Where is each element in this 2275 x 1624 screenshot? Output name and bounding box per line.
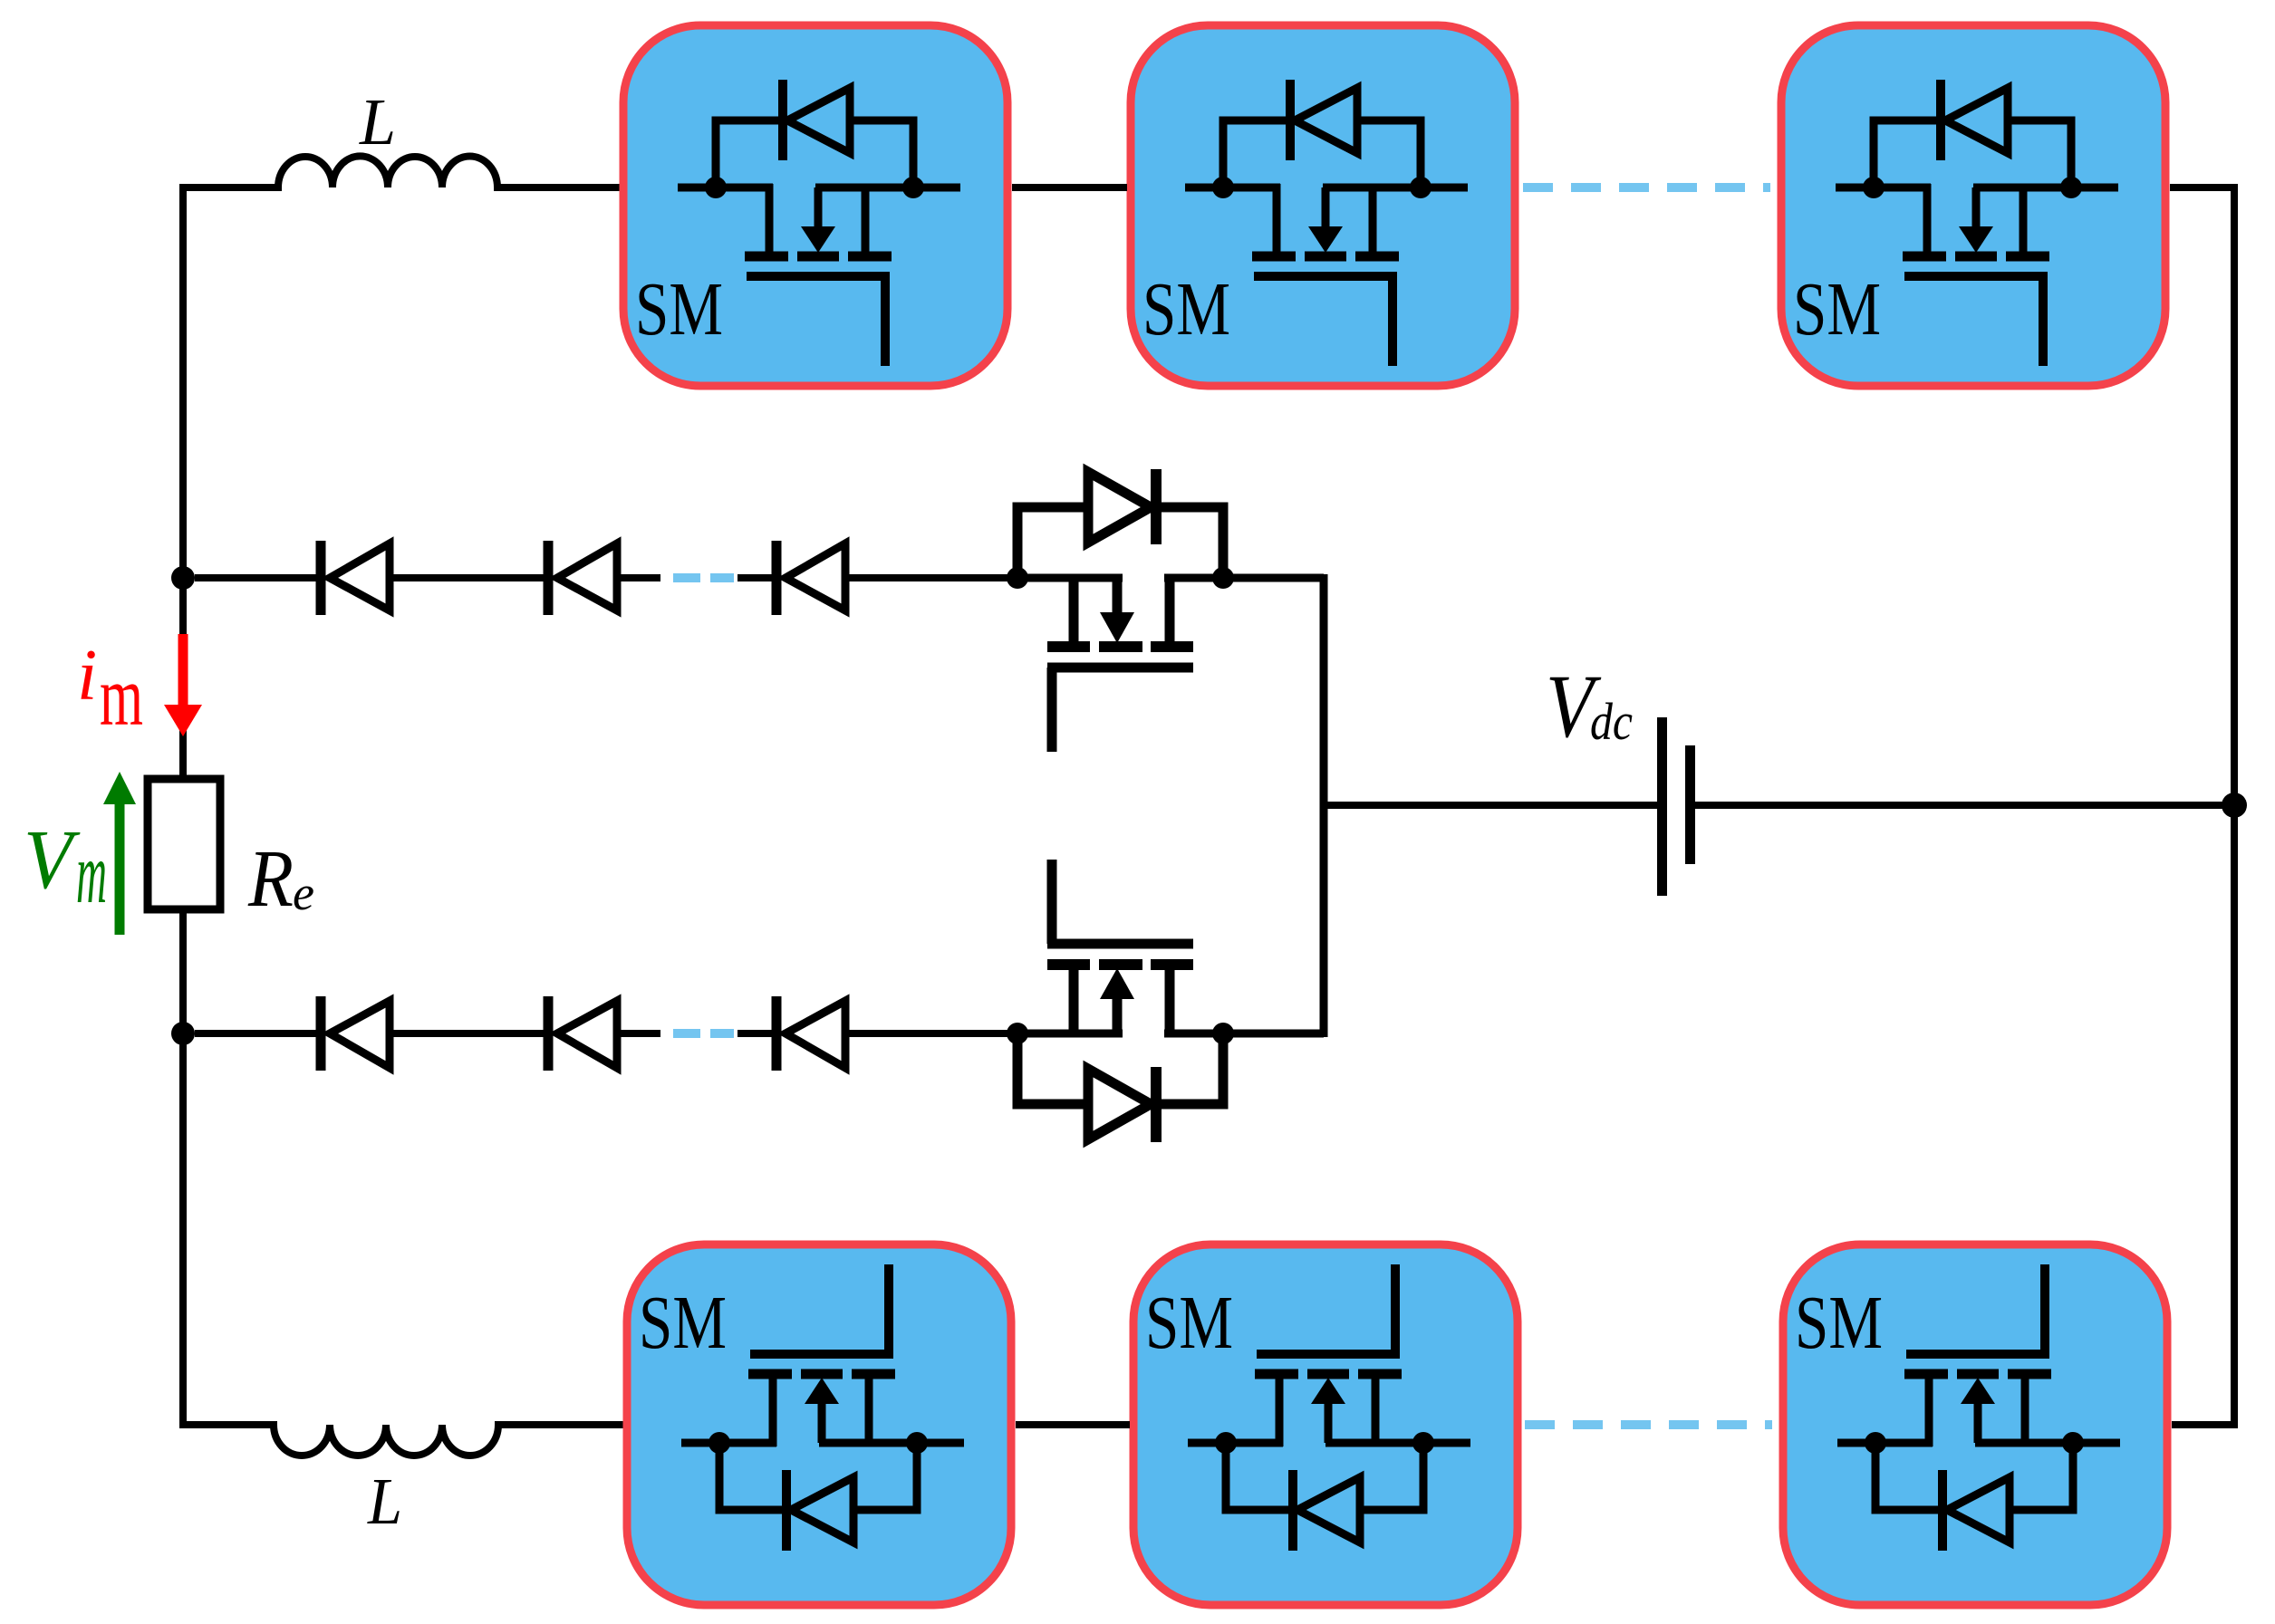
svg-text:L: L xyxy=(359,85,396,159)
wire: dashed SM5 to SM6 xyxy=(1525,1420,1772,1429)
upper bridge MOSFET T1 with freewheel diode xyxy=(1007,469,1324,806)
svg-text:SM: SM xyxy=(1145,1281,1233,1365)
svg-text:SM: SM xyxy=(635,267,723,351)
svg-text:m: m xyxy=(76,825,107,921)
submodule SM1 (top arm) xyxy=(623,25,1007,386)
wire: left rail lower section xyxy=(179,909,187,1428)
svg-text:e: e xyxy=(293,866,314,920)
submodule SM2 (top arm) xyxy=(1131,25,1515,386)
dc source V_dc long plate xyxy=(1657,717,1667,896)
lower bridge MOSFET T2 with freewheel diode xyxy=(1007,805,1324,1142)
svg-text:R: R xyxy=(247,834,294,924)
voltage arrow V_m xyxy=(115,802,125,935)
svg-text:SM: SM xyxy=(1793,267,1881,351)
svg-text:SM: SM xyxy=(1142,267,1230,351)
wire: SM1 to SM2 xyxy=(1012,184,1127,191)
submodule SM4 (bottom arm) xyxy=(627,1244,1011,1605)
svg-text:V: V xyxy=(24,813,81,907)
wire: SM3 to right dc rail and right rail down to bottom arm xyxy=(2170,187,2234,1425)
svg-text:dc: dc xyxy=(1590,692,1633,751)
wire: dc source to right rail xyxy=(1695,802,2234,809)
svg-text:i: i xyxy=(77,636,97,716)
svg-text:SM: SM xyxy=(639,1281,727,1365)
submodule SM5 (bottom arm) xyxy=(1133,1244,1518,1605)
wire: bottom arm from left rail with arm inductor xyxy=(183,1425,623,1456)
wire: top arm from left rail to SM1 with arm inductor xyxy=(183,156,620,187)
submodule SM6 (bottom arm) xyxy=(1783,1244,2167,1605)
wire: dashed SM2 to SM3 xyxy=(1523,183,1770,192)
svg-text:SM: SM xyxy=(1795,1281,1883,1365)
resistor R_e xyxy=(148,779,220,909)
submodule SM3 (top arm) xyxy=(1781,25,2165,386)
wire: SM4 to SM5 xyxy=(1016,1421,1130,1428)
wire: left rail upper section xyxy=(179,184,187,779)
svg-text:m: m xyxy=(100,649,143,744)
node: left rail / lower diode string junction xyxy=(171,1022,195,1045)
dc source V_dc short plate xyxy=(1685,745,1695,864)
node: dc source / right rail junction xyxy=(2222,793,2247,818)
current arrow i_m xyxy=(178,634,188,706)
wire: bridge midpoint to dc source xyxy=(1324,802,1657,809)
node: left rail / upper diode string junction xyxy=(171,566,195,590)
upper series diode string xyxy=(195,541,1017,615)
svg-text:L: L xyxy=(367,1465,402,1538)
lower series diode string xyxy=(195,996,1017,1071)
